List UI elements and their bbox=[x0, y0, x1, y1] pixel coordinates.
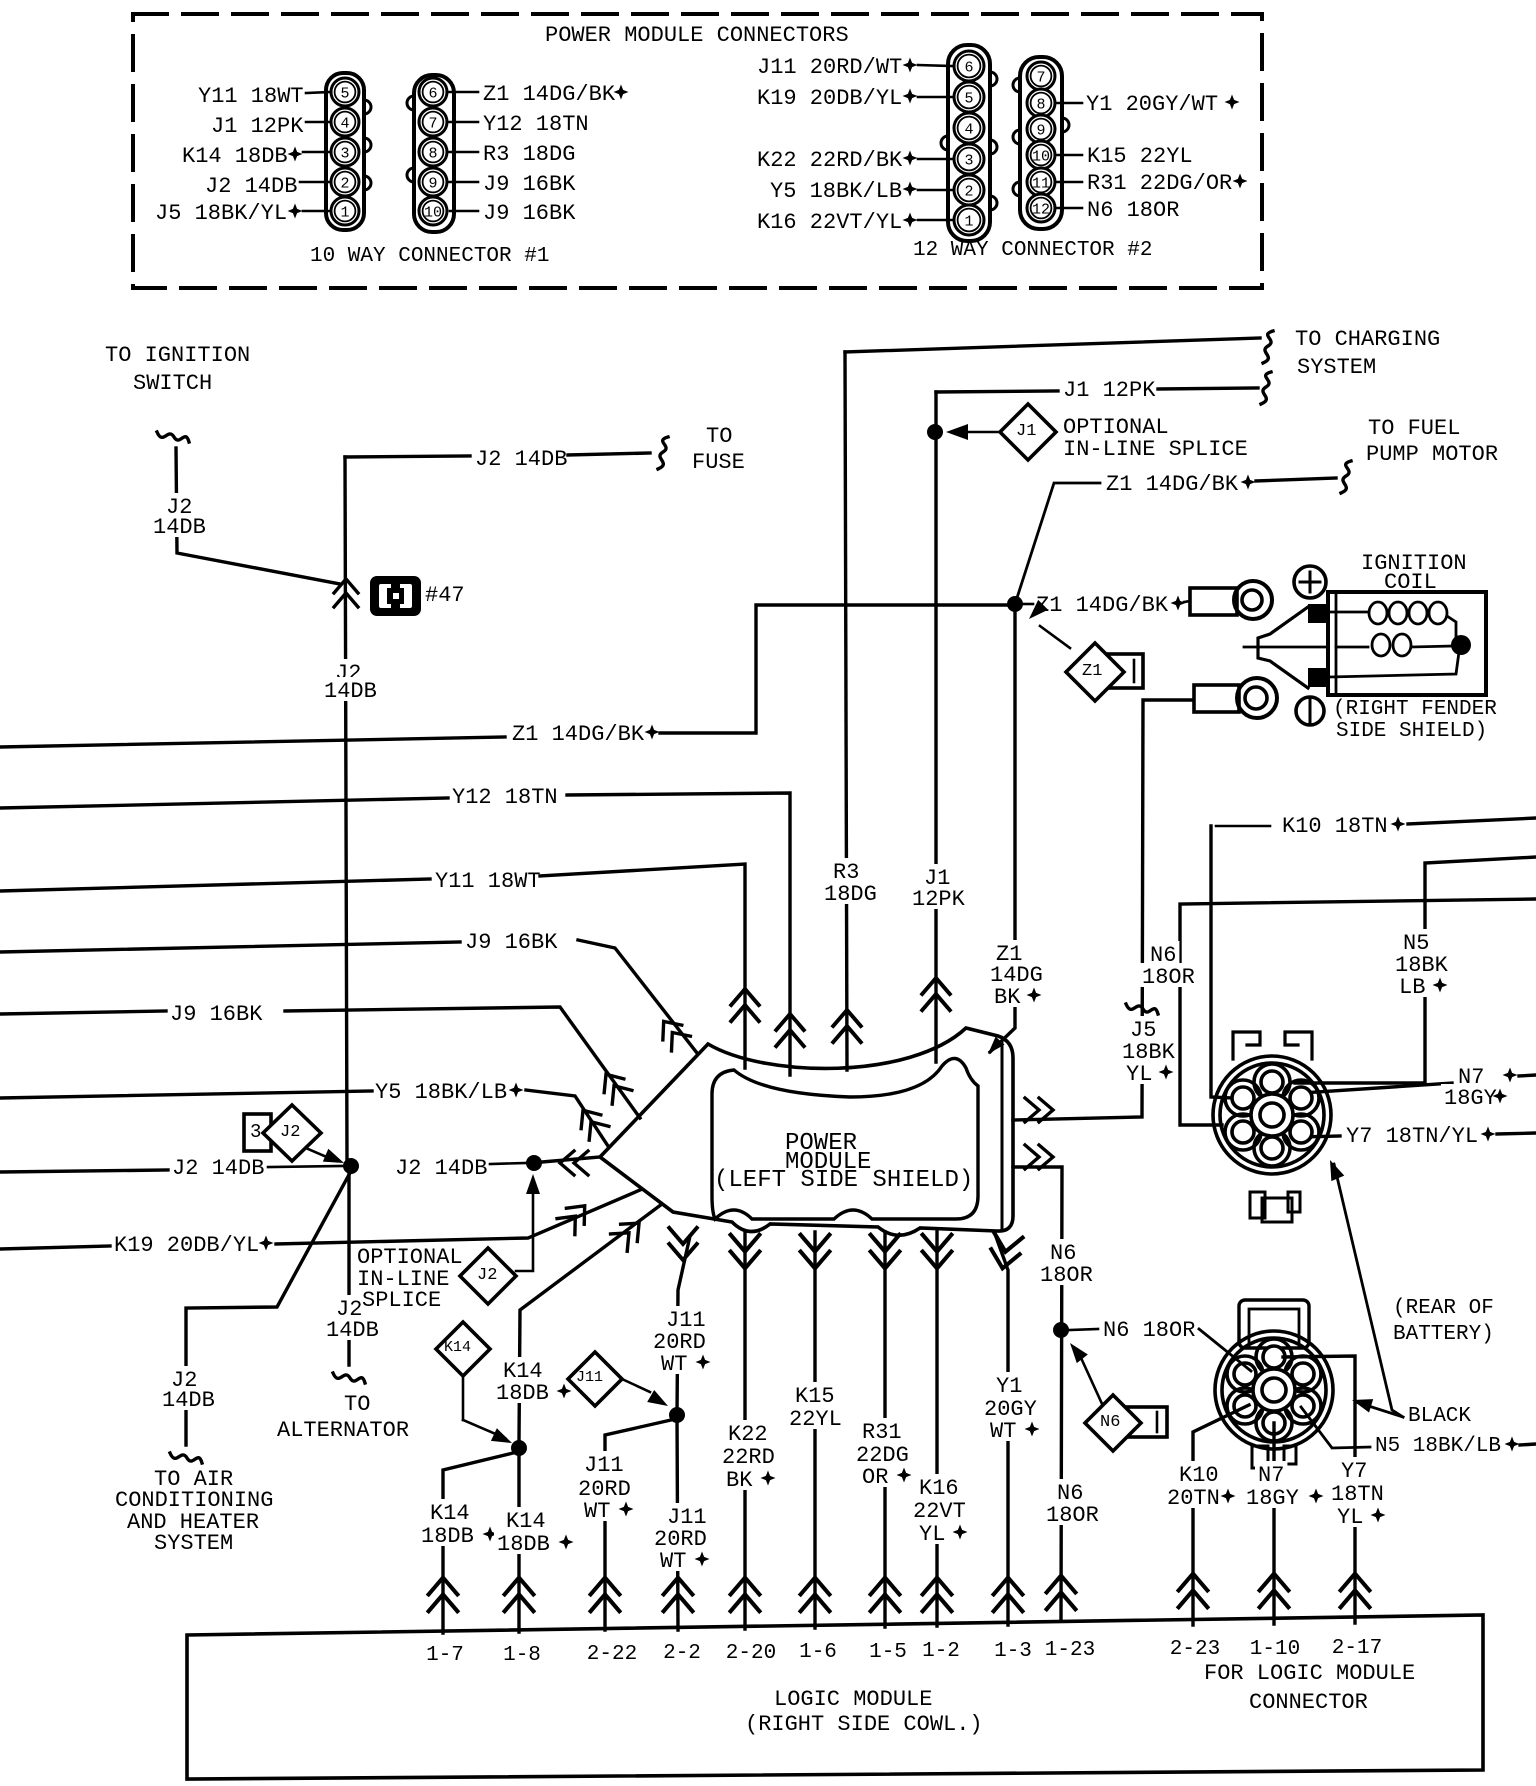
svg-text:1-10: 1-10 bbox=[1250, 1638, 1300, 1661]
svg-text:SPLICE: SPLICE bbox=[362, 1288, 441, 1313]
pin 5 conn#2 bbox=[954, 82, 984, 112]
label N6 18OR pin12 bbox=[1056, 207, 1082, 210]
svg-text:TO FUEL: TO FUEL bbox=[1368, 416, 1460, 441]
wire N7 18GY from connector C1 bbox=[1303, 1083, 1452, 1093]
svg-text:2-2: 2-2 bbox=[663, 1642, 701, 1665]
svg-text:K16 22VT/YL: K16 22VT/YL bbox=[757, 210, 902, 235]
ring terminal Z1 (coil +) bbox=[1190, 588, 1237, 615]
power module connectors dashed box bbox=[133, 14, 1262, 288]
wire K22 22RD/BK to logic module 2-20 bbox=[743, 1232, 746, 1629]
splice symbol 3/J2 bbox=[244, 1114, 271, 1151]
svg-text:BK: BK bbox=[994, 985, 1021, 1010]
svg-text:Z1: Z1 bbox=[1082, 662, 1102, 681]
pin 4 conn#2 bbox=[954, 113, 984, 143]
svg-text:K19 20DB/YL: K19 20DB/YL bbox=[114, 1233, 259, 1258]
svg-text:10 WAY CONNECTOR #1: 10 WAY CONNECTOR #1 bbox=[310, 245, 549, 268]
svg-text:9: 9 bbox=[428, 176, 437, 193]
splice symbol Z1 bbox=[1024, 600, 1048, 624]
pin 5 conn#1 bbox=[331, 78, 359, 106]
svg-text:4: 4 bbox=[964, 122, 973, 139]
pin 11 conn#2 bbox=[1027, 168, 1055, 196]
pin 4 conn#1 bbox=[331, 108, 359, 136]
svg-text:R3 18DG: R3 18DG bbox=[483, 142, 575, 167]
svg-text:N6 18OR: N6 18OR bbox=[1087, 198, 1179, 223]
connector strip 10-way right (pins 6-10) bbox=[414, 75, 454, 232]
svg-text:3: 3 bbox=[250, 1121, 261, 1143]
svg-text:1: 1 bbox=[964, 214, 973, 231]
svg-text:7: 7 bbox=[1036, 70, 1045, 87]
connector C1 (6-way round, engine harness) bbox=[1233, 1032, 1260, 1059]
splice symbol J11 bbox=[568, 1352, 622, 1406]
wire K19 20DB/YL horizontal bbox=[0, 1246, 110, 1249]
svg-text:K14 18DB: K14 18DB bbox=[182, 144, 288, 169]
wire J11 to logic module 2-2 bbox=[677, 1415, 678, 1630]
svg-text:3: 3 bbox=[964, 153, 973, 170]
connector crossing chevrons Y7 bbox=[1341, 1574, 1370, 1608]
svg-text:18OR: 18OR bbox=[1046, 1503, 1099, 1528]
svg-text:WT: WT bbox=[990, 1419, 1016, 1444]
svg-text:N6 18OR: N6 18OR bbox=[1103, 1318, 1195, 1343]
break to alternator bbox=[333, 1373, 365, 1383]
pin 9 conn#1 bbox=[419, 168, 447, 196]
wire J9 16BK lower bbox=[0, 1011, 166, 1014]
svg-text:J1 12PK: J1 12PK bbox=[211, 114, 304, 139]
connector crossing chevrons Y11 bbox=[731, 989, 759, 1021]
svg-text:18GY: 18GY bbox=[1246, 1486, 1299, 1511]
svg-text:TO: TO bbox=[344, 1392, 370, 1417]
connector crossing chevrons J2 trunk bbox=[334, 579, 358, 607]
logic module box bbox=[187, 1615, 1483, 1779]
junction dot J2 second bbox=[526, 1155, 542, 1171]
connector crossing chevrons J9 lower bbox=[596, 1067, 632, 1104]
connector crossing chevrons N6 lower bbox=[1047, 1576, 1076, 1610]
svg-text:Y5 18BK/LB: Y5 18BK/LB bbox=[770, 179, 902, 204]
svg-text:1-3: 1-3 bbox=[994, 1640, 1032, 1663]
wire K16 22VT/YL to logic module 1-2 bbox=[935, 1232, 938, 1626]
svg-text:SYSTEM: SYSTEM bbox=[154, 1531, 233, 1556]
svg-text:12 WAY CONNECTOR #2: 12 WAY CONNECTOR #2 bbox=[913, 239, 1152, 262]
svg-text:J2 14DB: J2 14DB bbox=[172, 1156, 264, 1181]
label Z1 14DG/BK pin6 bbox=[448, 91, 478, 94]
svg-text:J1 12PK: J1 12PK bbox=[1063, 378, 1156, 403]
splice symbol N6 bbox=[1064, 1339, 1087, 1363]
svg-text:Z1 14DG/BK: Z1 14DG/BK bbox=[512, 722, 645, 747]
svg-text:Y12 18TN: Y12 18TN bbox=[483, 112, 589, 137]
svg-text:FUSE: FUSE bbox=[692, 450, 745, 475]
pin 1 conn#1 bbox=[331, 197, 359, 225]
wire Y12 18TN horizontal bbox=[0, 798, 448, 808]
svg-text:J9 16BK: J9 16BK bbox=[483, 201, 576, 226]
label K15 22YL pin10 bbox=[1056, 154, 1082, 157]
svg-text:J2: J2 bbox=[477, 1266, 497, 1285]
wire Y5 18BK/LB horizontal bbox=[0, 1091, 372, 1098]
svg-text:2-17: 2-17 bbox=[1332, 1637, 1382, 1660]
wire J2 14DB to alternator bbox=[347, 1172, 350, 1365]
svg-text:#47: #47 bbox=[425, 583, 465, 608]
wire Z1 vertical to power module bbox=[990, 612, 1015, 1052]
connector crossing chevrons R3 bbox=[833, 1010, 861, 1042]
pin 3 conn#1 bbox=[331, 138, 359, 166]
wire J2 14DB from ignition switch bbox=[176, 448, 340, 584]
label Z1 14DG/BK at junction bbox=[1023, 603, 1033, 606]
connector crossing chevrons Y5 bbox=[573, 1103, 609, 1140]
svg-text:5: 5 bbox=[964, 91, 973, 108]
svg-text:IN-LINE SPLICE: IN-LINE SPLICE bbox=[1063, 437, 1248, 462]
svg-text:K19 20DB/YL: K19 20DB/YL bbox=[757, 86, 902, 111]
pin 3 conn#2 bbox=[954, 144, 984, 174]
junction dot Z1 bbox=[1007, 596, 1023, 612]
svg-text:K10 18TN: K10 18TN bbox=[1282, 814, 1388, 839]
label R31 22DG/OR pin11 bbox=[1056, 181, 1082, 184]
svg-text:PUMP MOTOR: PUMP MOTOR bbox=[1366, 442, 1498, 467]
wire R3 to charging system bbox=[845, 338, 1260, 352]
coil terminal - (black) bbox=[1308, 668, 1330, 687]
svg-text:LB: LB bbox=[1399, 975, 1425, 1000]
svg-text:1-8: 1-8 bbox=[503, 1644, 541, 1667]
wire N6 18OR to connector C1 bbox=[1180, 899, 1536, 1125]
pin 12 conn#2 bbox=[1027, 194, 1055, 222]
pin 6 conn#1 bbox=[419, 78, 447, 106]
connector #47 symbol bbox=[370, 576, 421, 616]
wire N6 18OR from module down bbox=[1013, 1167, 1062, 1620]
svg-text:4: 4 bbox=[340, 116, 349, 133]
wire Y11 18WT horizontal bbox=[0, 879, 430, 891]
wire K15 22YL to logic module 1-6 bbox=[813, 1232, 816, 1628]
splice symbol K14 bbox=[436, 1322, 490, 1376]
svg-text:LOGIC MODULE: LOGIC MODULE bbox=[774, 1687, 932, 1712]
svg-text:1: 1 bbox=[340, 205, 349, 222]
svg-text:(RIGHT FENDER: (RIGHT FENDER bbox=[1333, 698, 1497, 721]
svg-text:N5 18BK/LB: N5 18BK/LB bbox=[1375, 1435, 1501, 1458]
svg-text:J9 16BK: J9 16BK bbox=[483, 172, 576, 197]
svg-text:TO: TO bbox=[706, 424, 732, 449]
svg-text:2: 2 bbox=[340, 176, 349, 193]
svg-text:R31 22DG/OR: R31 22DG/OR bbox=[1087, 171, 1232, 196]
svg-text:WT: WT bbox=[584, 1499, 610, 1524]
distributor cap bbox=[1258, 607, 1308, 688]
svg-text:2: 2 bbox=[964, 184, 973, 201]
svg-text:YL: YL bbox=[919, 1522, 945, 1547]
svg-text:18DG: 18DG bbox=[824, 882, 877, 907]
wire N7 18GY from C2 to logic module bbox=[1272, 1423, 1275, 1624]
svg-text:J2 14DB: J2 14DB bbox=[205, 174, 297, 199]
pin 7 conn#2 bbox=[1027, 62, 1055, 90]
svg-text:BLACK: BLACK bbox=[1408, 1405, 1471, 1428]
svg-text:3: 3 bbox=[340, 146, 349, 163]
pin 1 conn#2 bbox=[954, 205, 984, 235]
svg-text:TO CHARGING: TO CHARGING bbox=[1295, 327, 1440, 352]
svg-text:12: 12 bbox=[1032, 202, 1050, 219]
svg-text:J5 18BK/YL: J5 18BK/YL bbox=[155, 201, 287, 226]
svg-text:18DB: 18DB bbox=[496, 1381, 549, 1406]
svg-text:SWITCH: SWITCH bbox=[133, 371, 212, 396]
svg-text:1-23: 1-23 bbox=[1045, 1639, 1095, 1662]
coil terminal + (black) bbox=[1308, 604, 1330, 623]
label J9 16BK pin9 bbox=[448, 181, 478, 184]
wire J2 14DB horizontal bbox=[0, 1170, 168, 1172]
svg-text:WT: WT bbox=[661, 1352, 687, 1377]
connector crossing chevrons K10 bbox=[1179, 1574, 1208, 1608]
svg-text:J2 14DB: J2 14DB bbox=[475, 447, 567, 472]
svg-text:(REAR OF: (REAR OF bbox=[1393, 1297, 1494, 1320]
junction dot J2 bbox=[343, 1158, 359, 1174]
wire K14 to logic module 1-8 bbox=[517, 1448, 520, 1632]
pin 7 conn#1 bbox=[419, 108, 447, 136]
svg-text:8: 8 bbox=[428, 146, 437, 163]
pin 8 conn#1 bbox=[419, 138, 447, 166]
pin 6 conn#2 bbox=[954, 51, 984, 81]
wire J1 12PK to charging system bbox=[936, 391, 1058, 392]
svg-text:J11 20RD/WT: J11 20RD/WT bbox=[757, 55, 902, 80]
svg-text:J2: J2 bbox=[280, 1123, 300, 1142]
svg-text:TO IGNITION: TO IGNITION bbox=[105, 343, 250, 368]
svg-text:Z1 14DG/BK: Z1 14DG/BK bbox=[483, 82, 616, 107]
svg-text:J9 16BK: J9 16BK bbox=[465, 930, 558, 955]
wire N6 18OR into C2 bbox=[1199, 1329, 1251, 1371]
wire J2 14DB to fuse bbox=[345, 456, 470, 457]
svg-text:Z1 14DG/BK: Z1 14DG/BK bbox=[1106, 472, 1239, 497]
svg-text:6: 6 bbox=[964, 60, 973, 77]
wire Z1 14DG/BK horizontal bbox=[0, 737, 505, 747]
label Y12 18TN pin7 bbox=[448, 121, 478, 124]
break to A/C bbox=[170, 1453, 202, 1463]
wire J1 12PK vertical bbox=[934, 392, 937, 1062]
svg-text:J9 16BK: J9 16BK bbox=[170, 1002, 263, 1027]
connector strip 12-way right (pins 7-12) bbox=[1020, 57, 1062, 229]
svg-text:8: 8 bbox=[1036, 97, 1045, 114]
svg-text:10: 10 bbox=[1032, 149, 1050, 166]
coil negative symbol bbox=[1296, 697, 1324, 725]
label J2 14DB trunk bbox=[332, 659, 364, 683]
svg-text:2-23: 2-23 bbox=[1170, 1638, 1220, 1661]
svg-text:BK: BK bbox=[726, 1468, 753, 1493]
svg-text:14DB: 14DB bbox=[326, 1318, 379, 1343]
connector crossing chevrons K19 bbox=[557, 1198, 594, 1235]
junction dot K14 bbox=[511, 1440, 527, 1456]
svg-text:18GY: 18GY bbox=[1444, 1086, 1497, 1111]
break J5 inline connector bbox=[1126, 1004, 1158, 1014]
wire Y7 18TN/YL from C2 to logic module bbox=[1283, 1356, 1355, 1623]
svg-text:WT: WT bbox=[660, 1549, 686, 1574]
connector crossing chevrons Y12 bbox=[776, 1014, 804, 1046]
svg-text:(RIGHT SIDE COWL.): (RIGHT SIDE COWL.) bbox=[745, 1712, 983, 1737]
pin 2 conn#2 bbox=[954, 175, 984, 205]
svg-text:SIDE SHIELD): SIDE SHIELD) bbox=[1336, 720, 1487, 743]
ignition coil box bbox=[1328, 592, 1486, 695]
power module inner outline bbox=[712, 1058, 978, 1219]
svg-text:2-22: 2-22 bbox=[587, 1643, 637, 1666]
wire J11 to logic module 2-22 bbox=[605, 1420, 671, 1630]
wire Z1 14DG/BK to fuel pump bbox=[1015, 483, 1100, 604]
wire J2 14DB to A/C and heater bbox=[186, 1171, 351, 1445]
junction dot J1 splice bbox=[927, 424, 943, 440]
svg-text:14DB: 14DB bbox=[162, 1388, 215, 1413]
svg-text:10: 10 bbox=[424, 205, 442, 222]
svg-text:(LEFT SIDE SHIELD): (LEFT SIDE SHIELD) bbox=[714, 1167, 973, 1194]
break to fuse bbox=[658, 437, 668, 469]
svg-text:18DB: 18DB bbox=[421, 1524, 474, 1549]
svg-text:ALTERNATOR: ALTERNATOR bbox=[277, 1418, 409, 1443]
svg-text:6: 6 bbox=[428, 86, 437, 103]
label J9 16BK pin10 bbox=[450, 210, 478, 213]
wire N5 18BK/LB from C2 bbox=[1301, 1407, 1370, 1448]
svg-text:K15 22YL: K15 22YL bbox=[1087, 144, 1193, 169]
svg-text:CONNECTOR: CONNECTOR bbox=[1249, 1690, 1368, 1715]
svg-text:Y12 18TN: Y12 18TN bbox=[452, 785, 558, 810]
wire J11 20RD/WT from module bbox=[677, 1236, 690, 1415]
label R3 18DG pin8 bbox=[448, 151, 478, 154]
coil secondary winding bbox=[1336, 646, 1368, 649]
break to ignition switch bbox=[157, 432, 189, 442]
pin 10 conn#1 bbox=[419, 197, 447, 225]
svg-text:1-5: 1-5 bbox=[869, 1641, 907, 1664]
svg-text:J2 14DB: J2 14DB bbox=[395, 1156, 487, 1181]
svg-text:J11: J11 bbox=[576, 1369, 603, 1386]
wire R31 22DG/OR to logic module 1-5 bbox=[883, 1232, 886, 1627]
pin 9 conn#2 bbox=[1027, 115, 1055, 143]
svg-text:18OR: 18OR bbox=[1142, 965, 1195, 990]
svg-text:Y7 18TN/YL: Y7 18TN/YL bbox=[1346, 1124, 1478, 1149]
svg-text:J11: J11 bbox=[584, 1453, 624, 1478]
power module outline bbox=[600, 1028, 1013, 1235]
splice symbol J1 bbox=[946, 424, 968, 440]
svg-text:Z1 14DG/BK: Z1 14DG/BK bbox=[1036, 593, 1169, 618]
connector C2 body bbox=[1215, 1331, 1333, 1449]
wire Y1 20GY/WT to logic module 1-3 bbox=[995, 1234, 1008, 1625]
junction dot N6 bbox=[1053, 1322, 1069, 1338]
wire J2 14DB trunk vertical bbox=[345, 457, 347, 1162]
junction dot coil bbox=[1451, 635, 1471, 655]
connector strip 10-way left (pins 5-1) bbox=[326, 73, 364, 230]
connector crossing chevrons J2 to module bbox=[542, 1157, 600, 1162]
svg-text:1-6: 1-6 bbox=[799, 1641, 837, 1664]
svg-text:12PK: 12PK bbox=[912, 887, 966, 912]
svg-text:11: 11 bbox=[1032, 176, 1050, 193]
svg-text:9: 9 bbox=[1036, 123, 1045, 140]
label Y1 20GY/WT pin8 bbox=[1056, 102, 1082, 105]
wire J5 18BK/YL from module to coil bbox=[1013, 700, 1192, 1120]
svg-text:FOR LOGIC MODULE: FOR LOGIC MODULE bbox=[1204, 1661, 1415, 1686]
svg-text:K14: K14 bbox=[444, 1339, 471, 1356]
svg-text:Y1 20GY/WT: Y1 20GY/WT bbox=[1086, 92, 1218, 117]
pin 10 conn#2 bbox=[1027, 141, 1055, 169]
svg-text:1-7: 1-7 bbox=[426, 1644, 464, 1667]
svg-text:2-20: 2-20 bbox=[726, 1642, 776, 1665]
svg-text:14DB: 14DB bbox=[324, 679, 377, 704]
connector crossing chevrons J1 bbox=[922, 978, 950, 1010]
svg-text:YL: YL bbox=[1126, 1062, 1152, 1087]
ring terminal J5 (coil -) bbox=[1194, 685, 1239, 712]
wire K10 20TN from C2 to logic module bbox=[1193, 1405, 1249, 1625]
svg-text:18OR: 18OR bbox=[1040, 1263, 1093, 1288]
wire K14 to logic module 1-7 bbox=[443, 1453, 513, 1633]
svg-text:OR: OR bbox=[862, 1465, 888, 1490]
svg-text:14DB: 14DB bbox=[153, 515, 206, 540]
svg-text:YL: YL bbox=[1337, 1505, 1363, 1530]
wire to BLACK label from C1 bbox=[1334, 1164, 1403, 1417]
pin 8 conn#2 bbox=[1027, 89, 1055, 117]
wire J9 16BK upper bbox=[0, 942, 460, 952]
connector C1 body bbox=[1213, 1056, 1331, 1174]
coil primary winding bbox=[1330, 611, 1367, 614]
connector C2 (6-way round, rear of battery) bbox=[1239, 1300, 1309, 1348]
connector crossing chevrons N7 bbox=[1260, 1574, 1289, 1608]
svg-text:20TN: 20TN bbox=[1167, 1486, 1220, 1511]
connector crossing chevrons J9 upper bbox=[654, 1014, 690, 1051]
svg-text:5: 5 bbox=[340, 86, 349, 103]
svg-text:Y5 18BK/LB: Y5 18BK/LB bbox=[375, 1080, 507, 1105]
coil bottom wire bbox=[1330, 652, 1459, 677]
svg-text:22YL: 22YL bbox=[789, 1407, 842, 1432]
wire R3 18DG vertical bbox=[845, 352, 847, 1070]
svg-text:18DB: 18DB bbox=[497, 1532, 550, 1557]
svg-text:N6: N6 bbox=[1100, 1413, 1120, 1432]
wire K14 18DB from module bbox=[519, 1204, 662, 1440]
wire Y7 18TN/YL from connector C1 bbox=[1302, 1136, 1340, 1137]
svg-text:POWER MODULE CONNECTORS: POWER MODULE CONNECTORS bbox=[545, 23, 849, 48]
connector strip 12-way left (pins 6-1) bbox=[948, 45, 990, 241]
svg-text:7: 7 bbox=[428, 116, 437, 133]
svg-text:K22 22RD/BK: K22 22RD/BK bbox=[757, 148, 903, 173]
pin 2 conn#1 bbox=[331, 168, 359, 196]
svg-text:J1: J1 bbox=[1016, 422, 1036, 441]
svg-text:SYSTEM: SYSTEM bbox=[1297, 355, 1376, 380]
wire K10 18TN upper bbox=[1211, 826, 1232, 1098]
svg-text:Y11 18WT: Y11 18WT bbox=[435, 869, 541, 894]
svg-text:BATTERY): BATTERY) bbox=[1393, 1323, 1494, 1346]
svg-text:1-2: 1-2 bbox=[922, 1640, 960, 1663]
wire N5 18BK/LB vertical bbox=[1295, 857, 1536, 1083]
coil positive symbol bbox=[1294, 566, 1326, 598]
junction dot J11 bbox=[669, 1407, 685, 1423]
svg-text:Y11 18WT: Y11 18WT bbox=[198, 84, 304, 109]
